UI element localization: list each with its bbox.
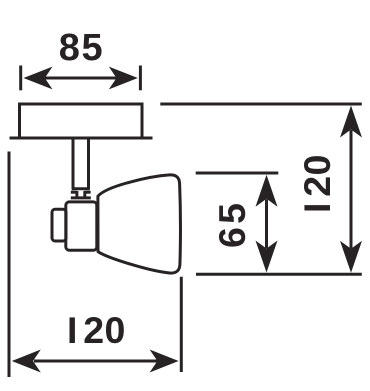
right lower extension line [180,277,183,372]
joint right tab [85,191,91,194]
dim 120 bottom left arrowhead [12,350,41,373]
knob [52,209,66,241]
bottom extension line [196,273,362,276]
left extension line [8,152,11,378]
dim 85 left arrowhead [24,67,53,90]
svg-text:I20: I20 [296,155,338,213]
dim 65 down arrowhead [256,241,278,273]
top extension line [160,103,361,106]
dim 85 right tick [139,66,142,91]
joint neck right [83,191,86,197]
svg-text:65: 65 [211,203,253,248]
dim 120 bottom shaft [34,360,158,363]
dim 65 up arrowhead [256,175,278,207]
stem right wall [87,140,90,190]
svg-text:85: 85 [59,27,103,69]
stem bottom cap [72,187,90,190]
dim 120 right shaft [350,130,353,249]
cone shade [98,175,181,273]
joint collar [71,196,91,199]
base plate [20,104,143,138]
dim 85 left tick [19,66,22,91]
joint neck left [75,191,78,197]
lamp body [66,202,97,250]
dim 65 shaft [265,199,268,248]
dim 120 down arrowhead [340,241,362,273]
dim 85 arrow shaft [42,77,119,80]
base flange [10,137,153,140]
dim 65 top extension line [196,172,279,175]
joint left tab [71,191,77,194]
dim 120 bottom right arrowhead [150,350,179,373]
stem left wall [72,140,75,190]
dim 85 right arrowhead [109,67,138,90]
svg-text:I20: I20 [67,309,125,351]
dim 120 up arrowhead [340,106,362,138]
